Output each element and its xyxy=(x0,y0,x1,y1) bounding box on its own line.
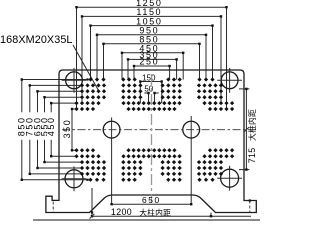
dimension 450 (top) xyxy=(121,44,185,80)
dimension 950 (top) xyxy=(96,26,207,80)
dimension 50 (top, inside plate) xyxy=(144,85,158,104)
dimension 250 (top) xyxy=(133,57,171,80)
mounting hole grid (168X M20X35L) xyxy=(74,77,234,182)
dimension 850 (top) xyxy=(102,35,200,80)
left foot inner edge (dashed) xyxy=(52,202,54,213)
svg-text:150: 150 xyxy=(142,73,156,82)
svg-text:650: 650 xyxy=(142,195,161,205)
svg-text:350: 350 xyxy=(62,119,72,139)
dimension 715 (right, tie bar inner distance) xyxy=(239,88,257,171)
dimension 350 (top) xyxy=(127,50,178,79)
dimension 1150 (top) xyxy=(81,7,222,103)
tick at 715 dim / centerline crossing xyxy=(244,127,249,132)
dimension 450 (left) xyxy=(46,102,78,157)
svg-text:168XM20X35L: 168XM20X35L xyxy=(0,34,73,46)
tick at 1200 dim left corner xyxy=(90,214,95,219)
dimension 150 (top, inside plate) xyxy=(139,73,163,103)
svg-text:450: 450 xyxy=(46,116,56,136)
junction dot left foot xyxy=(91,211,93,213)
tie bar hole BR xyxy=(217,166,242,191)
dimension 650 (bottom) xyxy=(110,195,192,206)
svg-text:50: 50 xyxy=(144,85,153,94)
dimension 1200 with extension xyxy=(91,188,251,218)
bottom border bar xyxy=(33,219,260,221)
horizontal centerline xyxy=(62,129,258,131)
dimension 650 (left) xyxy=(32,90,83,169)
svg-text:1200: 1200 xyxy=(111,207,132,217)
svg-text:大柱内距: 大柱内距 xyxy=(247,109,257,141)
dimension 1050 (top) xyxy=(89,16,213,79)
label 168XM20X35L with leader line xyxy=(0,34,99,91)
vertical centerline xyxy=(151,74,153,203)
locating hole left-mid xyxy=(103,118,120,205)
locating hole right-mid xyxy=(183,116,200,204)
svg-text:大柱内距: 大柱内距 xyxy=(139,208,171,218)
dimension 350 (left, inside plate) xyxy=(62,108,78,152)
platen plate outline with base and feet xyxy=(46,70,256,213)
tie bar hole BL xyxy=(62,166,87,191)
tie bar hole TL xyxy=(62,68,87,93)
right foot inner edge (dashed) xyxy=(249,201,251,213)
dimension 550 (left) xyxy=(39,96,83,163)
svg-text:715: 715 xyxy=(247,147,257,163)
dimension 750 (left) xyxy=(25,84,83,175)
tie bar hole TR xyxy=(217,68,242,93)
dimension 850 (left) xyxy=(17,78,89,181)
svg-text:250: 250 xyxy=(139,57,159,67)
junction dot right foot xyxy=(249,199,251,201)
dimension 1250 (top) xyxy=(75,0,227,109)
